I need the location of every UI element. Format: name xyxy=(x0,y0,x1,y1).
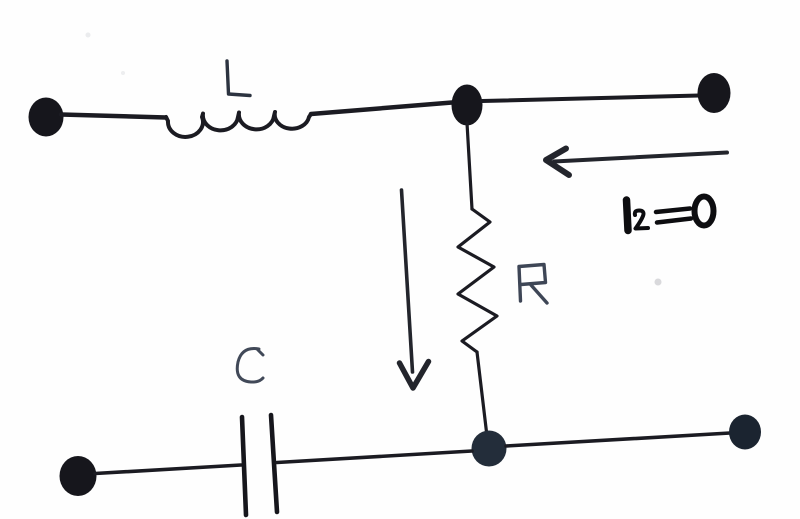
wire inductor to node A xyxy=(311,103,452,115)
wire bottom-left terminal to capacitor xyxy=(95,465,241,474)
current arrow branch (pointing down) xyxy=(400,190,429,388)
wire node A to resistor xyxy=(467,123,472,209)
wire node B to bottom-right terminal xyxy=(506,433,730,446)
capacitor C plates xyxy=(242,415,277,515)
node B bottom junction xyxy=(472,431,507,467)
resistor R xyxy=(458,209,497,352)
wire node A to top-right terminal xyxy=(482,96,699,102)
current arrow I2 (pointing left) xyxy=(546,149,727,176)
terminal node top-right xyxy=(698,73,731,113)
wire capacitor to node B xyxy=(277,451,472,463)
terminal node top-left xyxy=(29,98,64,137)
label C xyxy=(237,349,263,383)
label R xyxy=(519,265,547,304)
terminal node bottom-right xyxy=(729,415,761,450)
wire resistor to node B xyxy=(477,352,487,432)
node A top junction xyxy=(452,85,483,126)
terminal node bottom-left xyxy=(60,456,97,496)
wire top-left terminal to inductor xyxy=(61,115,166,118)
label L xyxy=(227,61,250,96)
inductor L xyxy=(166,112,311,137)
label I2=0 xyxy=(627,197,714,231)
